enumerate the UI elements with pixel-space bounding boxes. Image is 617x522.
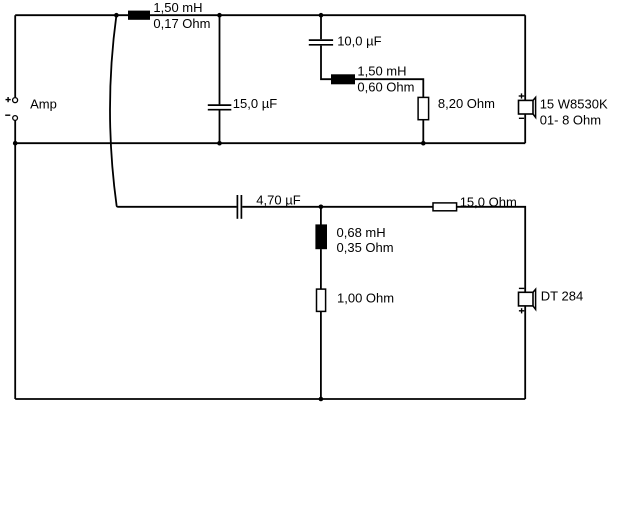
svg-text:15,0 Ohm: 15,0 Ohm <box>460 194 517 209</box>
wire L2 to R1 <box>355 79 423 97</box>
wire node A down to L3 <box>320 207 322 225</box>
svg-text:1,50 mH: 1,50 mH <box>357 63 406 78</box>
speaker U2 DT 284 box <box>519 292 534 306</box>
wire curved tweeter feed <box>110 15 237 207</box>
speaker U2 cone <box>533 289 536 309</box>
svg-text:0,35 Ohm: 0,35 Ohm <box>337 240 394 255</box>
node junction mid-R1 <box>421 141 426 146</box>
capacitor C3 4,70 uF <box>237 195 241 219</box>
wire R1 to mid rail <box>422 120 424 144</box>
amp terminal - circle <box>13 116 18 121</box>
resistor R2 15,0 Ohm <box>433 203 457 211</box>
wire R2 to tweeter <box>457 207 526 292</box>
wire left lower (amp - lead down to bottom rail) <box>14 121 16 400</box>
svg-text:10,0 µF: 10,0 µF <box>337 34 381 49</box>
wire branch C1 lower <box>219 110 221 143</box>
svg-text:Amp: Amp <box>30 97 57 112</box>
capacitor C1 15,0 uF <box>208 105 232 110</box>
svg-text:01- 8 Ohm: 01- 8 Ohm <box>540 112 601 127</box>
node junction top-C2 <box>319 13 324 18</box>
svg-text:0,68 mH: 0,68 mH <box>337 225 386 240</box>
node junction mid-left <box>13 141 18 146</box>
wire woofer bottom to mid rail <box>524 114 526 143</box>
svg-text:15 W8530K: 15 W8530K <box>540 96 608 111</box>
wire C2 to L2 <box>321 46 331 80</box>
inductor L1 1,50 mH 0,17 Ohm <box>128 11 150 20</box>
node junction top-C1 <box>217 13 222 18</box>
speaker U2 minus <box>519 287 524 289</box>
node A junction tweeter rail <box>319 205 324 210</box>
wire branch C1 upper <box>219 15 221 104</box>
wire L3 to R3 <box>320 249 322 289</box>
svg-text:DT 284: DT 284 <box>541 289 583 304</box>
node junction bottom rail <box>319 397 324 402</box>
amp terminal + circle <box>13 98 18 103</box>
speaker U1 plus <box>519 93 525 98</box>
resistor R1 8,20 Ohm <box>418 97 429 119</box>
wire tweeter bottom <box>524 306 526 399</box>
inductor L3 0,68 mH 0,35 Ohm <box>315 224 327 249</box>
svg-text:0,60 Ohm: 0,60 Ohm <box>357 80 414 95</box>
wire branch C2 upper <box>320 15 322 39</box>
node junction top-curve <box>114 13 119 18</box>
wire left upper (amp + lead) <box>14 15 16 97</box>
wire R3 to bottom rail <box>320 311 322 399</box>
wire bottom rail <box>15 398 525 400</box>
svg-text:15,0 µF: 15,0 µF <box>233 96 277 111</box>
speaker U2 plus <box>519 308 524 313</box>
speaker U1 15 W8530K box <box>519 100 534 114</box>
capacitor C2 10,0 uF <box>309 40 333 45</box>
resistor R3 1,00 Ohm <box>317 289 326 311</box>
svg-text:4,70 µF: 4,70 µF <box>256 193 300 208</box>
speaker U1 minus <box>519 117 524 119</box>
inductor L2 1,50 mH 0,60 Ohm <box>331 74 355 84</box>
wire mid rail (woofer return) <box>15 142 525 144</box>
svg-text:0,17 Ohm: 0,17 Ohm <box>153 16 210 31</box>
amp plus sign <box>6 97 11 102</box>
wire right vertical to woofer <box>524 15 526 100</box>
svg-text:8,20 Ohm: 8,20 Ohm <box>438 96 495 111</box>
node junction mid-C1 <box>217 141 222 146</box>
wire top rail <box>15 14 525 16</box>
svg-text:1,00 Ohm: 1,00 Ohm <box>337 290 394 305</box>
wire C3 to node A <box>242 206 433 208</box>
amp minus sign <box>5 114 10 116</box>
speaker U1 cone <box>533 97 536 117</box>
svg-text:1,50 mH: 1,50 mH <box>153 0 202 15</box>
